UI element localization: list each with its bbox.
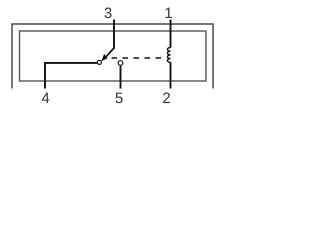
svg-text:3: 3 <box>104 5 112 22</box>
svg-text:4: 4 <box>41 90 49 107</box>
svg-text:2: 2 <box>162 90 170 107</box>
svg-text:1: 1 <box>164 5 172 22</box>
svg-text:5: 5 <box>115 90 123 107</box>
